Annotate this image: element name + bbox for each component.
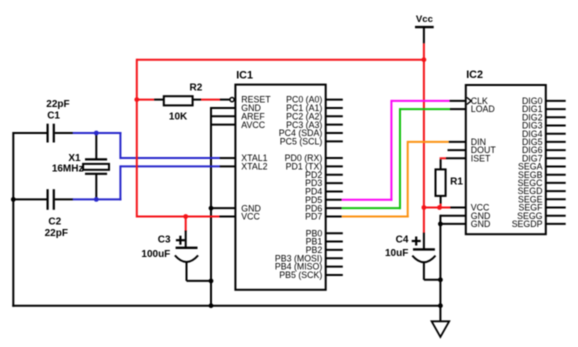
wire IC1 GND pin stub (bottom)	[211, 207, 235, 209]
wire IC2 GND drop	[439, 215, 441, 321]
svg-text:10uF: 10uF	[385, 248, 408, 259]
power symbol Vcc	[415, 27, 434, 43]
resistor R2 designator	[190, 83, 203, 94]
capacitor C3 designator	[158, 234, 171, 245]
ground symbol	[432, 321, 450, 337]
node junction left-rail/C2	[11, 197, 16, 202]
wire DOUT pin stub (n.c.)	[448, 149, 466, 151]
wire ISET link (red)	[440, 157, 446, 159]
value label 10uF (C4)	[385, 248, 408, 259]
svg-text:10K: 10K	[169, 111, 188, 122]
node junction GND pins	[438, 222, 443, 227]
wire XTAL1 net (blue)	[73, 132, 221, 159]
node junction X1-top/C1 (blue)	[94, 131, 99, 136]
svg-text:XTAL2: XTAL2	[241, 162, 267, 172]
wire IC1 AREF pin stub	[211, 115, 235, 117]
wire LOAD pin stub	[450, 108, 466, 110]
wire C4 top lead	[423, 233, 425, 250]
wire PD6-LOAD net (green)	[342, 108, 450, 209]
wire IC2 GND pin stub 1	[440, 215, 465, 217]
svg-text:PC5 (SCL): PC5 (SCL)	[280, 136, 323, 146]
wire R1 bottom lead	[440, 196, 442, 208]
capacitor C4 plus sign	[412, 237, 421, 246]
svg-text:22pF: 22pF	[46, 99, 69, 110]
svg-text:SEGDP: SEGDP	[512, 219, 543, 229]
svg-text:Vcc: Vcc	[416, 14, 434, 25]
node junction Vcc/IC2-VCC-row (red)	[422, 205, 427, 210]
svg-text:C3: C3	[158, 234, 171, 245]
node junction VCC/R2 (red)	[134, 97, 139, 102]
svg-text:R2: R2	[190, 83, 203, 94]
wire C2 right lead	[55, 198, 73, 200]
wire IC1 GND pin stub (top)	[211, 107, 235, 109]
wire IC2 GND pin stub 2	[440, 223, 465, 225]
IC1 right pin stubs	[326, 100, 343, 275]
wire CLK pin stub	[450, 100, 466, 102]
svg-text:C1: C1	[47, 110, 60, 121]
node junction VCC-row/C3 (red)	[183, 214, 188, 219]
wire C1 left lead	[13, 132, 46, 134]
wire IC1 AVCC pin stub	[211, 124, 235, 126]
wire IC1 VCC pin stub	[220, 216, 236, 218]
op-amp IC1 (microcontroller)	[235, 69, 325, 289]
capacitor C3 plus sign	[176, 236, 185, 245]
IC2 right pin stubs	[546, 101, 566, 224]
svg-text:C4: C4	[396, 234, 409, 245]
node junction GND-bus/ground-rail	[209, 303, 214, 308]
RESET inversion bubble	[230, 98, 234, 102]
capacitor C4	[412, 249, 435, 262]
wire IC1 GND/AREF/AVCC bus vertical	[210, 107, 212, 306]
wire XTAL1 pin stub	[220, 157, 236, 159]
resistor R2	[164, 96, 193, 105]
capacitor C2	[48, 189, 54, 210]
wire VCC top rail (red)	[137, 59, 424, 61]
svg-text:PB5 (SCK): PB5 (SCK)	[279, 270, 322, 280]
wire IC2 VCC row (red)	[424, 207, 451, 209]
svg-text:GND: GND	[471, 219, 491, 229]
resistor R1 designator	[450, 177, 463, 188]
capacitor C4 designator	[396, 234, 409, 245]
power label Vcc	[416, 14, 434, 25]
crystal X1 designator	[68, 153, 81, 164]
display driver IC2	[466, 69, 546, 234]
svg-text:16MHz: 16MHz	[52, 164, 84, 175]
wire VCC left vertical (red)	[136, 59, 138, 218]
svg-text:R1: R1	[450, 177, 463, 188]
value label 10K (R2)	[169, 111, 188, 122]
wire IC2 VCC pin stub	[450, 207, 465, 209]
wire R1 top lead	[440, 159, 442, 170]
capacitor C3	[175, 248, 198, 262]
node junction GND/ground-rail	[438, 303, 443, 308]
wire PD5 pin stub	[326, 199, 342, 201]
svg-text:PD7: PD7	[305, 212, 322, 222]
wire C3 top lead	[185, 217, 187, 249]
svg-text:AVCC: AVCC	[241, 120, 265, 130]
svg-text:C2: C2	[48, 217, 61, 228]
wire XTAL2 net (blue)	[73, 165, 221, 200]
svg-text:100uF: 100uF	[141, 249, 170, 260]
wire PD7-DIN net (orange)	[342, 141, 449, 218]
svg-text:22pF: 22pF	[45, 228, 68, 239]
wire PD7 pin stub	[326, 216, 342, 218]
wire C3 bottom lead	[187, 262, 212, 281]
node junction GND-bus/IC1-GND	[209, 206, 214, 211]
value label 16MHz (X1)	[52, 164, 84, 175]
wire X1 top lead	[95, 132, 97, 159]
capacitor C1 designator	[47, 110, 60, 121]
wire IC1 VCC row (red)	[137, 216, 220, 218]
wire R2 left lead	[137, 99, 164, 101]
wire X1 bottom lead	[95, 174, 97, 201]
capacitor C1	[48, 124, 54, 143]
svg-text:IC1: IC1	[236, 69, 253, 81]
wire C1 right lead	[55, 132, 73, 134]
wire C4 bottom lead	[424, 262, 441, 280]
resistor R1	[436, 169, 446, 196]
wire DIN pin stub	[449, 141, 466, 143]
wire left rail (C1/C2 to ground)	[12, 132, 14, 307]
wire ISET pin stub	[446, 157, 466, 159]
svg-text:IC2: IC2	[466, 69, 483, 81]
value label 100uF (C3)	[141, 249, 170, 260]
CLK clock-input triangle	[467, 97, 471, 104]
node junction GND-bus/C3	[209, 279, 214, 284]
crystal X1	[83, 159, 109, 173]
wire C2 left lead	[13, 198, 46, 200]
node junction R1/VCC-row (red)	[437, 205, 442, 210]
wire PD6 pin stub	[326, 207, 342, 209]
wire PD5-CLK net (magenta)	[342, 100, 450, 201]
wire XTAL2 pin stub	[220, 165, 236, 167]
svg-text:X1: X1	[68, 153, 81, 164]
wire ground rail	[12, 305, 441, 307]
svg-text:VCC: VCC	[241, 212, 260, 222]
node junction Vcc/top-rail (red)	[422, 57, 427, 62]
svg-text:ISET: ISET	[471, 153, 491, 163]
wire Vcc drop (red)	[423, 43, 425, 233]
value label 22pF (C1)	[46, 99, 69, 110]
node junction X1-bottom/C2 (blue)	[94, 197, 99, 202]
capacitor C2 designator	[48, 217, 61, 228]
svg-text:LOAD: LOAD	[471, 104, 495, 114]
wire R2 right lead	[193, 99, 230, 101]
node junction GND/C4	[438, 277, 443, 282]
value label 22pF (C2)	[45, 228, 68, 239]
